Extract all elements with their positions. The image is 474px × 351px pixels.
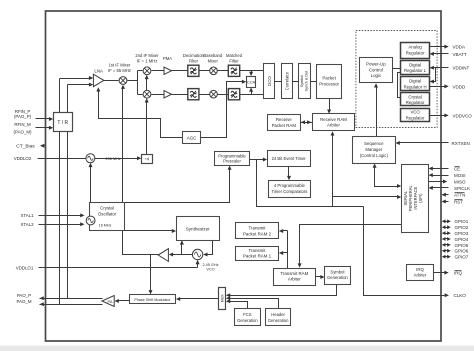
svg-text:SPICLK: SPICLK (454, 186, 470, 191)
wire header generation to MUX (230, 299, 279, 309)
svg-text:Power-Up: Power-Up (366, 62, 386, 67)
pin VDDA (430, 46, 445, 48)
svg-text:Oscillator: Oscillator (98, 211, 117, 216)
svg-text:Receive: Receive (276, 117, 292, 122)
pin CE (432, 168, 449, 170)
wire T/R to LNA input 1 (60, 78, 90, 80)
svg-text:VCO: VCO (410, 110, 420, 115)
wire transmit RAM arbiter to packet RAMs (287, 231, 289, 269)
wire digital regulator L to crystal regulator bracket (398, 73, 401, 98)
amplifier PMA I (164, 67, 172, 74)
svg-text:RST: RST (454, 199, 463, 204)
svg-text:XTAL1: XTAL1 (20, 213, 34, 218)
svg-text:Receive RAM: Receive RAM (320, 117, 347, 122)
svg-text:Regulator H: Regulator H (404, 84, 427, 89)
chip outer border (46, 11, 442, 341)
svg-text:RFIN_M: RFIN_M (14, 122, 31, 127)
svg-text:Symbol: Symbol (300, 75, 304, 87)
wire packet processor to receive RAM arbiter (329, 99, 331, 111)
wire synthesizer to VCO control (207, 241, 213, 255)
wire matched filter Q to DCO (240, 94, 264, 96)
wire LNA output to 1st IF mixer (104, 80, 119, 82)
svg-text:Arbiter: Arbiter (414, 273, 427, 278)
wire bus branch to SPI (333, 196, 398, 198)
wire sequence manager to power-up control logic (376, 87, 378, 137)
svg-text:Digital: Digital (409, 63, 421, 68)
block VCO regulator (401, 109, 430, 122)
svg-text:Sequence: Sequence (364, 141, 384, 146)
block power-up control logic (360, 58, 393, 83)
svg-text:Filter: Filter (229, 59, 239, 64)
mixer baseband Q (210, 90, 218, 98)
wire MUX to phase shift modulator (179, 298, 219, 300)
svg-text:Transmit RAM: Transmit RAM (280, 271, 308, 276)
svg-text:Packet RAM: Packet RAM (272, 123, 297, 128)
block transmit packet RAM 2 (236, 223, 279, 239)
pin MOSI (432, 175, 449, 177)
svg-text:PMA: PMA (163, 56, 172, 61)
svg-text:(PAO_M): (PAO_M) (14, 129, 33, 134)
block IRQ arbiter (407, 265, 434, 281)
svg-text:GPIO5: GPIO5 (455, 243, 469, 248)
pin RST (443, 201, 449, 203)
wire VDDLO1 to VCO bottom (197, 262, 199, 268)
wire 2nd IF mixer Q to PMA Q (152, 94, 165, 96)
svg-text:IF = 65 MHz: IF = 65 MHz (108, 68, 131, 73)
oscillator crystal 16 MHz (86, 216, 95, 225)
svg-text:2.45 GHz: 2.45 GHz (202, 263, 218, 267)
svg-text:XTAL2: XTAL2 (20, 222, 34, 227)
wire SPI to transmit RAM arbiter (300, 225, 402, 265)
svg-text:PA: PA (108, 299, 113, 304)
svg-text:Crystal: Crystal (100, 205, 114, 210)
block symbol synch and det (299, 64, 311, 99)
wire 256MHz oscillator to divide-by-4 (95, 158, 138, 160)
wire baseband mixer Q to matched filter Q (218, 94, 229, 96)
wire junction I to CCA (251, 71, 253, 73)
svg-text:Synch & Det: Synch & Det (305, 71, 309, 92)
amplifier PA (102, 296, 114, 307)
svg-text:16 MHz: 16 MHz (99, 223, 112, 227)
block crystal regulator (401, 93, 430, 106)
svg-text:Phase Shift Modulator: Phase Shift Modulator (134, 298, 171, 302)
wire correlator to symbol synch (293, 81, 299, 83)
block matched filter I (228, 65, 239, 76)
wire VCO output to buffer (173, 254, 193, 256)
wire symbol synch to packet processor (311, 81, 317, 83)
svg-text:256 MHz: 256 MHz (106, 157, 121, 161)
svg-text:CT_Bias: CT_Bias (16, 143, 35, 149)
block FCS generation (235, 309, 261, 326)
wire receive packet RAM to receive RAM arbiter bidirectional (301, 122, 313, 124)
svg-text:Prescaler: Prescaler (223, 159, 241, 164)
block CCA (247, 77, 256, 88)
svg-text:2nd IF Mixer: 2nd IF Mixer (135, 53, 159, 58)
wire 1st IF mixer output split (128, 80, 138, 82)
wire pin CT_Bias (45, 145, 46, 147)
svg-text:GPIO7: GPIO7 (455, 255, 469, 260)
block 24 bit event timer (268, 151, 311, 167)
svg-text:VBATT: VBATT (453, 52, 467, 57)
svg-text:Regulator: Regulator (406, 115, 425, 120)
svg-text:VDDA: VDDA (453, 45, 466, 50)
svg-text:Logic: Logic (371, 73, 382, 78)
svg-text:÷4: ÷4 (144, 157, 149, 162)
amplifier PMA Q (164, 91, 172, 99)
pin VBATT (433, 53, 449, 55)
block symbol generation (325, 267, 351, 285)
svg-text:4 Programmable: 4 Programmable (274, 183, 306, 188)
block DCO (264, 64, 275, 99)
svg-text:VDDLO2: VDDLO2 (14, 156, 32, 161)
svg-text:Packet RAM 2: Packet RAM 2 (243, 231, 272, 236)
wire PMA I to decimation filter I (172, 70, 188, 72)
svg-text:VDDINT: VDDINT (453, 66, 470, 71)
block packet processor (317, 65, 342, 99)
wire matched filter I to DCO (240, 70, 264, 72)
block synthesizer (177, 217, 220, 241)
wire clock bus to CLKO pin (364, 207, 445, 296)
mixer 2nd IF Q (143, 90, 151, 98)
mixer 2nd IF I (143, 67, 151, 75)
wire VCO feedback to synthesizer (181, 244, 183, 255)
svg-text:Regulator: Regulator (406, 100, 425, 105)
wire crystal oscillator to 256MHz oscillator (90, 165, 92, 217)
block digital regulator H (401, 77, 430, 91)
svg-text:(Control Logic): (Control Logic) (360, 153, 389, 158)
svg-text:IRQ: IRQ (454, 271, 463, 276)
wire crystal oscillator to synthesizer (125, 230, 173, 232)
wire PMA Q to decimation filter Q (172, 94, 188, 96)
svg-text:Arbiter: Arbiter (288, 277, 301, 282)
block receive RAM arbiter (313, 114, 355, 131)
svg-text:VCO: VCO (206, 267, 214, 271)
svg-text:RFIN_P: RFIN_P (15, 109, 31, 114)
pin VDDVCO (430, 115, 445, 117)
wire sequence manager to SPI bidirectional (373, 163, 377, 167)
block correlator (282, 64, 293, 99)
wire transmit RAM arbiter to symbol generation (316, 276, 322, 278)
wire phase shift modulator to PA (119, 300, 130, 302)
svg-text:MOSI: MOSI (454, 173, 466, 178)
pin GPIO7 (445, 256, 449, 258)
block matched filter Q (228, 89, 239, 100)
svg-text:Matched: Matched (226, 53, 243, 58)
wire T/R to LNA input 2 (68, 84, 90, 86)
svg-text:PAO_M: PAO_M (16, 299, 31, 304)
svg-text:CLKO: CLKO (454, 293, 467, 298)
block receive packet RAM (268, 115, 301, 131)
pin ATTN (443, 194, 449, 196)
wire junction Q to CCA (251, 91, 253, 95)
pin MISO (429, 181, 445, 183)
block decimation filter I (188, 65, 199, 76)
svg-text:GPIO3: GPIO3 (455, 231, 469, 236)
wire crystal oscillator to prescaler (125, 169, 230, 203)
svg-text:LNA: LNA (94, 68, 103, 73)
pin RXTXEN (399, 142, 449, 144)
pin GPIO3 (445, 233, 449, 235)
svg-text:Control: Control (369, 67, 383, 72)
svg-text:(SPI): (SPI) (418, 193, 423, 203)
wire receive RAM arbiter to clock bus (332, 135, 334, 207)
svg-text:Generation: Generation (268, 318, 289, 323)
wire T/R branch vertical left (59, 79, 61, 305)
oscillator 256 MHz (86, 154, 95, 163)
block serial peripheral interface SPI (402, 165, 429, 233)
wire pin RFIN_M to T/R (36, 127, 50, 129)
wire carrier to phase shift modulator (150, 255, 152, 291)
svg-text:Transmit: Transmit (249, 226, 267, 231)
svg-text:CE: CE (454, 166, 460, 171)
block analog regulator (401, 43, 430, 59)
wire 2nd IF mixer I to PMA I (152, 70, 165, 72)
pin VDDINT (433, 67, 449, 69)
pin IRQ (434, 272, 445, 274)
wire AGC to LNA gain control (99, 89, 183, 138)
block sequence manager (353, 137, 396, 164)
block decimation filter Q (188, 89, 199, 100)
scan artifact gray band at bottom (0, 346, 474, 351)
pin VDDD (430, 86, 445, 88)
svg-text:T / R: T / R (57, 120, 68, 126)
svg-text:DCO: DCO (267, 76, 272, 86)
wire pin RFIN_P to T/R (36, 118, 50, 120)
svg-text:CCA: CCA (247, 80, 256, 85)
svg-text:Baseband: Baseband (203, 53, 223, 58)
power section dashed boundary (356, 31, 437, 128)
wire clock bus from prescaler junction (257, 160, 364, 207)
mixer 1st IF (119, 77, 127, 85)
svg-text:Packet: Packet (322, 76, 336, 81)
svg-text:1st IF Mixer: 1st IF Mixer (109, 62, 131, 67)
pin GPIO1 (445, 221, 449, 223)
svg-text:24 Bit Event Timer: 24 Bit Event Timer (272, 156, 307, 161)
mixer baseband I (210, 67, 218, 75)
svg-text:Transmit: Transmit (249, 248, 267, 253)
svg-text:Generation: Generation (327, 275, 348, 280)
svg-text:MUX: MUX (220, 294, 224, 303)
svg-text:GPIO2: GPIO2 (455, 225, 469, 230)
svg-text:IRQ: IRQ (416, 267, 424, 272)
wire pin VDDLO1 to VCO (39, 267, 198, 269)
wire pin XTAL1 to crystal oscillator (39, 215, 81, 217)
block MUX (219, 288, 226, 310)
svg-text:Crystal: Crystal (408, 94, 421, 99)
wire pin PAO_M from PA (40, 302, 44, 306)
svg-text:Symbol: Symbol (330, 269, 344, 274)
block phase shift modulator (130, 295, 176, 304)
wire AGC to CCA (201, 82, 243, 138)
amplifier VCO buffer (158, 249, 168, 262)
svg-text:Header: Header (271, 312, 285, 317)
svg-text:GPIO4: GPIO4 (455, 237, 469, 242)
svg-text:Manager: Manager (365, 147, 383, 152)
svg-text:Filter: Filter (189, 59, 199, 64)
svg-text:VDDVCO: VDDVCO (453, 113, 473, 118)
svg-text:AGC: AGC (187, 135, 197, 140)
block digital regulator L (401, 61, 430, 75)
wire prescaler to 24 bit event timer (250, 159, 265, 161)
pin GPIO6 (445, 250, 449, 252)
amplifier LNA (93, 74, 104, 86)
wire decimation filter Q to baseband mixer Q (199, 94, 210, 96)
svg-text:VDDD: VDDD (453, 84, 467, 89)
svg-text:Arbiter: Arbiter (327, 123, 340, 128)
block T/R switch (54, 113, 73, 132)
wire T/R branch vertical right (67, 85, 69, 299)
wire symbol generation to MUX (230, 285, 337, 296)
pin GPIO5 (445, 244, 449, 246)
wire pin XTAL2 to crystal oscillator (39, 224, 81, 226)
svg-text:Correlator: Correlator (285, 71, 290, 90)
svg-text:Synthesizer: Synthesizer (186, 226, 210, 231)
block divide-by-4 prescaler (142, 155, 153, 164)
pin GPIO2 (445, 227, 449, 229)
block header generation (266, 309, 291, 326)
svg-text:Timer Comparators: Timer Comparators (271, 189, 307, 194)
block transmit RAM arbiter (274, 269, 316, 286)
wire pin PAO_P from PA (40, 296, 44, 300)
svg-text:Digital: Digital (409, 79, 421, 84)
block programmable prescaler (215, 152, 250, 166)
block crystal oscillator (90, 203, 125, 231)
wire decimation filter I to baseband mixer I (199, 70, 210, 72)
svg-text:Analog: Analog (408, 45, 422, 50)
svg-text:MISO: MISO (454, 179, 466, 184)
wire FCS generation to MUX (230, 302, 248, 309)
svg-text:VDDLO1: VDDLO1 (16, 266, 34, 271)
svg-text:(PAO_P): (PAO_P) (14, 114, 32, 119)
oscillator VCO 2.45 GHz (192, 249, 202, 259)
block AGC (183, 132, 201, 144)
svg-text:Mixer: Mixer (208, 59, 219, 64)
svg-text:GPIO6: GPIO6 (455, 249, 469, 254)
svg-text:IF = 1 MHz: IF = 1 MHz (137, 59, 158, 64)
svg-text:Generation: Generation (237, 318, 258, 323)
svg-text:Regulator: Regulator (406, 51, 425, 56)
wire DCO to correlator (275, 81, 282, 83)
wire VCO buffer to 1st IF mixer LO (123, 87, 159, 255)
svg-text:Packet RAM 1: Packet RAM 1 (243, 254, 272, 259)
svg-text:Decimation: Decimation (183, 53, 205, 58)
svg-text:RXTXEN: RXTXEN (452, 141, 470, 146)
svg-text:PAO_P: PAO_P (17, 293, 31, 298)
svg-text:FCS: FCS (243, 312, 252, 317)
wire VDDINT branch to digital regulator H (433, 68, 436, 82)
pin GPIO4 (445, 238, 449, 240)
wire 24 bit event timer to comparators (288, 167, 290, 177)
wire baseband mixer I to matched filter I (218, 70, 229, 72)
wire power-up control logic to digital regulator L (393, 68, 401, 70)
svg-text:Processor: Processor (319, 81, 339, 86)
svg-text:Regulator L: Regulator L (404, 68, 427, 73)
svg-text:GPIO1: GPIO1 (455, 219, 469, 224)
pin SPICLK (432, 187, 449, 189)
block transmit packet RAM 1 (236, 247, 279, 261)
wire divide-by-4 to 2nd IF mixer LO (146, 101, 148, 155)
svg-text:ATTN: ATTN (454, 193, 465, 198)
wire pin VDDLO2 to 256MHz oscillator (38, 158, 86, 160)
block 4 programmable timer comparators (269, 181, 311, 198)
